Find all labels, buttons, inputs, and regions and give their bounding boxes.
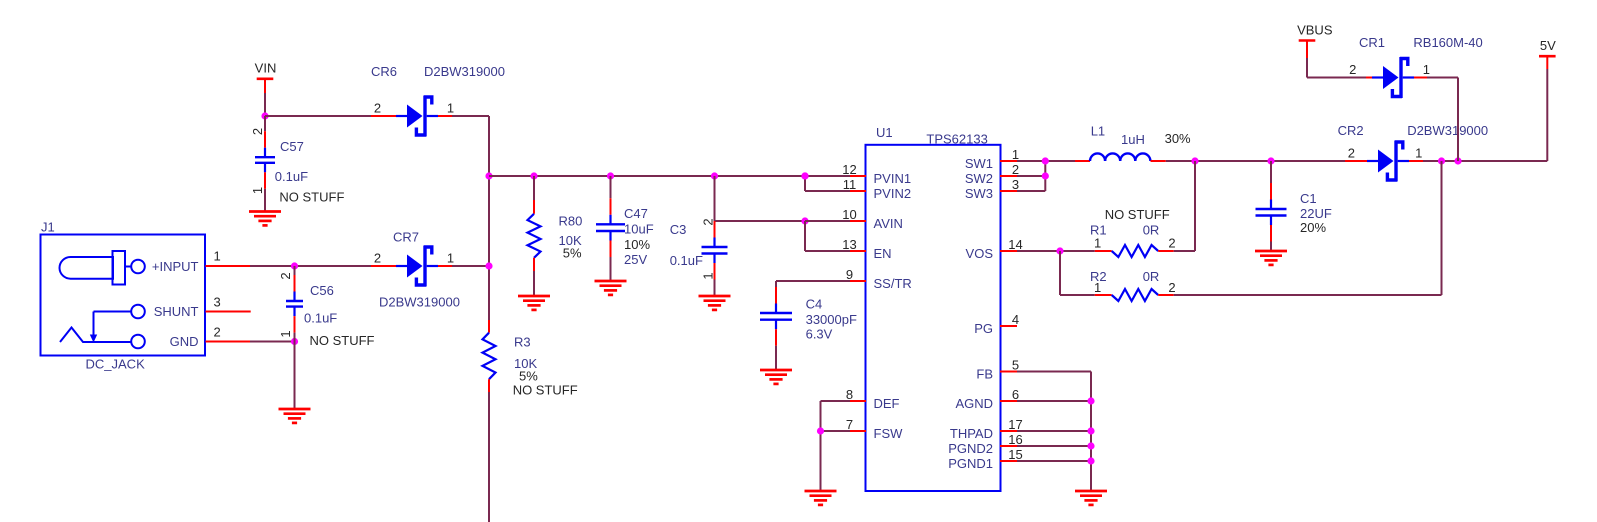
svg-text:TPS62133: TPS62133 (926, 131, 987, 146)
svg-text:CR2: CR2 (1338, 123, 1364, 138)
svg-text:1: 1 (250, 187, 265, 194)
svg-text:SHUNT: SHUNT (154, 304, 199, 319)
svg-text:SW1: SW1 (965, 156, 993, 171)
svg-text:VBUS: VBUS (1297, 22, 1333, 37)
svg-text:D2BW319000: D2BW319000 (379, 295, 460, 310)
svg-text:30%: 30% (1165, 131, 1191, 146)
svg-text:FB: FB (976, 367, 993, 382)
svg-text:14: 14 (1008, 237, 1022, 252)
svg-text:22UF: 22UF (1300, 206, 1332, 221)
svg-text:U1: U1 (876, 125, 893, 140)
svg-text:20%: 20% (1300, 220, 1326, 235)
svg-text:J1: J1 (41, 220, 55, 235)
svg-text:5: 5 (1012, 357, 1019, 372)
svg-text:SS/TR: SS/TR (874, 276, 912, 291)
svg-text:NO STUFF: NO STUFF (1105, 207, 1170, 222)
svg-text:+INPUT: +INPUT (152, 259, 199, 274)
svg-text:NO STUFF: NO STUFF (279, 190, 344, 205)
svg-text:2: 2 (1012, 162, 1019, 177)
svg-text:C47: C47 (624, 206, 648, 221)
svg-text:1: 1 (1423, 62, 1430, 77)
svg-text:DC_JACK: DC_JACK (86, 357, 146, 372)
svg-text:6.3V: 6.3V (806, 327, 833, 342)
svg-text:FSW: FSW (874, 426, 904, 441)
svg-text:PGND1: PGND1 (948, 456, 993, 471)
svg-text:AVIN: AVIN (874, 216, 903, 231)
svg-text:1: 1 (447, 101, 454, 116)
svg-text:9: 9 (846, 267, 853, 282)
svg-text:8: 8 (846, 387, 853, 402)
svg-text:13: 13 (842, 237, 856, 252)
svg-text:2: 2 (374, 101, 381, 116)
svg-text:R3: R3 (514, 334, 531, 349)
svg-text:D2BW319000: D2BW319000 (424, 64, 505, 79)
svg-text:PVIN2: PVIN2 (874, 186, 912, 201)
svg-text:R80: R80 (559, 214, 583, 229)
svg-text:2: 2 (214, 325, 221, 340)
svg-text:6: 6 (1012, 387, 1019, 402)
svg-text:NO STUFF: NO STUFF (513, 382, 578, 397)
svg-text:2: 2 (1168, 236, 1175, 251)
svg-text:0R: 0R (1143, 222, 1160, 237)
svg-text:2: 2 (701, 218, 716, 225)
svg-text:AGND: AGND (955, 396, 993, 411)
svg-text:RB160M-40: RB160M-40 (1413, 35, 1482, 50)
svg-text:1uH: 1uH (1121, 132, 1145, 147)
svg-text:PGND2: PGND2 (948, 441, 993, 456)
svg-text:3: 3 (1012, 177, 1019, 192)
svg-text:C3: C3 (670, 222, 687, 237)
svg-text:C57: C57 (280, 139, 304, 154)
svg-text:7: 7 (846, 417, 853, 432)
svg-text:0.1uF: 0.1uF (670, 253, 703, 268)
svg-text:D2BW319000: D2BW319000 (1407, 123, 1488, 138)
svg-text:4: 4 (1012, 312, 1019, 327)
svg-text:5%: 5% (563, 245, 582, 260)
svg-text:17: 17 (1008, 417, 1022, 432)
svg-text:PG: PG (974, 321, 993, 336)
svg-text:0.1uF: 0.1uF (275, 169, 308, 184)
svg-text:SW3: SW3 (965, 186, 993, 201)
svg-text:1: 1 (701, 272, 716, 279)
svg-text:VIN: VIN (255, 61, 277, 76)
svg-text:1: 1 (214, 249, 221, 264)
svg-text:12: 12 (842, 162, 856, 177)
svg-text:2: 2 (1348, 146, 1355, 161)
svg-text:3: 3 (214, 295, 221, 310)
svg-text:0.1uF: 0.1uF (304, 311, 337, 326)
svg-text:1: 1 (1415, 146, 1422, 161)
svg-text:C1: C1 (1300, 191, 1317, 206)
svg-text:2: 2 (374, 251, 381, 266)
svg-text:5V: 5V (1540, 38, 1556, 53)
svg-text:16: 16 (1008, 432, 1022, 447)
svg-text:1: 1 (1094, 280, 1101, 295)
svg-text:NO STUFF: NO STUFF (310, 333, 375, 348)
svg-text:0R: 0R (1143, 269, 1160, 284)
svg-text:25V: 25V (624, 252, 647, 267)
svg-text:10: 10 (842, 207, 856, 222)
svg-text:1: 1 (1012, 147, 1019, 162)
svg-text:10uF: 10uF (624, 222, 654, 237)
svg-text:C4: C4 (806, 297, 823, 312)
svg-text:L1: L1 (1091, 123, 1105, 138)
svg-text:11: 11 (843, 177, 857, 192)
svg-text:33000pF: 33000pF (806, 312, 857, 327)
svg-text:SW2: SW2 (965, 171, 993, 186)
svg-text:2: 2 (278, 272, 293, 279)
svg-text:DEF: DEF (874, 396, 900, 411)
svg-text:2: 2 (1349, 62, 1356, 77)
svg-text:CR7: CR7 (393, 230, 419, 245)
svg-text:1: 1 (278, 330, 293, 337)
svg-text:5%: 5% (519, 368, 538, 383)
svg-text:PVIN1: PVIN1 (874, 171, 912, 186)
svg-text:10%: 10% (624, 237, 650, 252)
svg-text:1: 1 (447, 251, 454, 266)
svg-text:C56: C56 (310, 283, 334, 298)
svg-text:CR1: CR1 (1359, 35, 1385, 50)
svg-text:1: 1 (1094, 236, 1101, 251)
svg-text:15: 15 (1008, 447, 1022, 462)
svg-text:VOS: VOS (966, 246, 994, 261)
svg-text:EN: EN (874, 246, 892, 261)
svg-text:2: 2 (1168, 280, 1175, 295)
svg-text:2: 2 (250, 128, 265, 135)
svg-text:GND: GND (170, 334, 199, 349)
svg-text:CR6: CR6 (371, 64, 397, 79)
svg-text:THPAD: THPAD (950, 426, 993, 441)
